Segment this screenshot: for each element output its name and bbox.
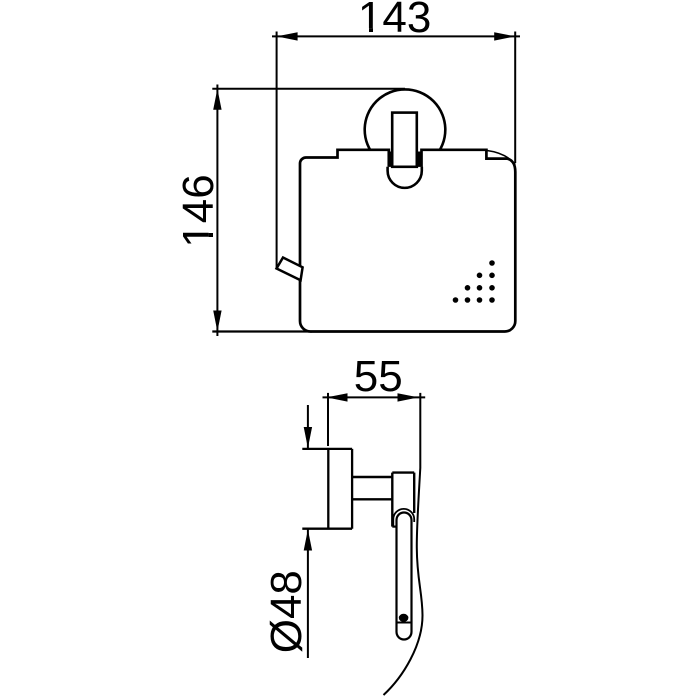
glyph patch: remove serif foot of 1 in 146 <box>209 224 214 245</box>
arrowhead 55 right <box>398 393 419 401</box>
dimension line 146 <box>216 85 218 337</box>
dots pattern <box>453 260 495 303</box>
arrowhead O48 up <box>304 530 312 551</box>
svg-text:146: 146 <box>174 174 223 247</box>
slot bar right <box>417 152 422 167</box>
dimension line O48 upper segment <box>307 405 309 448</box>
extension line 143 right <box>514 32 516 164</box>
wall plate bottom edge / ext line (side view) <box>302 528 352 530</box>
dimension line 55 <box>323 396 426 398</box>
extension line 143 left <box>276 32 278 270</box>
wall plate top edge / ext line (side view) <box>302 448 352 450</box>
wall plate left edge <box>327 449 329 529</box>
slot bar left <box>388 152 393 167</box>
svg-text:55: 55 <box>354 352 403 401</box>
dimension line O48 lower segment <box>307 530 309 659</box>
support arm bottom edge (side view) <box>352 498 392 500</box>
arrowhead O48 down <box>304 427 312 448</box>
extension line 55 left <box>327 393 329 446</box>
bracket left edge (side view) <box>391 473 393 527</box>
hook end dot <box>399 614 409 622</box>
mounting circle (front view) <box>365 89 446 170</box>
arrowhead 146 bottom <box>213 311 221 332</box>
bottom-left flap <box>277 258 303 281</box>
arrowhead 143 left <box>277 32 298 40</box>
bracket right edge (side view) <box>413 473 415 513</box>
bracket top edge (side view) <box>392 471 414 473</box>
svg-text:Ø48: Ø48 <box>262 570 311 653</box>
extension line 55 right + cover profile curve (side view) <box>384 393 423 695</box>
extension line 146 bottom <box>212 330 312 332</box>
arrowhead 55 left <box>327 393 348 401</box>
bracket wrap arc over hook <box>393 509 414 526</box>
roller U-tube below hanger <box>388 167 422 188</box>
support arm top edge (side view) <box>352 476 392 478</box>
arrowhead 146 top <box>213 89 221 110</box>
glyph patch: remove serif foot of 1 in 143 <box>361 28 381 33</box>
arrowhead 143 right <box>494 32 515 40</box>
wall plate right edge <box>351 449 353 529</box>
hanger bracket rectangle <box>392 113 417 167</box>
dimension line 143 <box>272 35 520 37</box>
hook inner line <box>397 622 410 624</box>
cover top-right corner seam arc <box>487 151 515 165</box>
cover body outline (front view) <box>300 150 515 332</box>
extension line 146 top <box>212 88 405 90</box>
bracket foot <box>392 525 396 527</box>
hook capsule (side view) <box>397 513 412 640</box>
